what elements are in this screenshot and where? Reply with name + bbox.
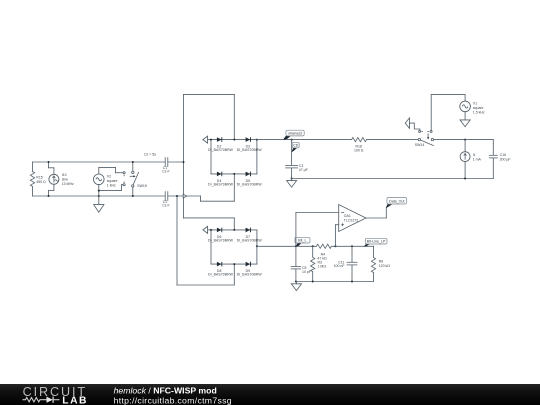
wire: C2 node down branch [177,196,234,285]
svg-text:450 Ω: 450 Ω [36,180,46,184]
svg-text:DI_BAS70BRW: DI_BAS70BRW [208,239,234,243]
net flag CD [291,140,299,166]
junction: bridge left top corner [210,139,212,141]
wire: bridge left vertical [210,140,212,174]
capacitor C2 [165,191,200,201]
svg-text:DI_BAS70BRW: DI_BAS70BRW [208,148,234,152]
flag (left of D6) [203,226,211,233]
svg-text:http://circuitlab.com/ctm7ssg: http://circuitlab.com/ctm7ssg [114,395,232,405]
svg-text:1 MΩ: 1 MΩ [318,265,327,269]
diode D5 [246,172,251,177]
wire: op-amp output [366,207,386,218]
diode D8 [217,262,222,267]
wire: op-amp inverting input [296,213,339,247]
svg-text:47 µF: 47 µF [299,168,308,172]
switch SW14 [418,130,434,145]
svg-text:DI_BAS70BRW: DI_BAS70BRW [237,148,263,152]
wire: op-amp non-inverting input [335,225,338,247]
junction: C11 bottom [351,281,353,283]
wire: bottom rail left block [33,195,166,197]
label C2 value [162,200,169,208]
junction: bridge bottom center [233,263,235,265]
svg-text:LAB: LAB [62,395,88,405]
junction: Bit_L node [295,245,297,247]
CircuitLab logo [23,385,88,405]
junction: I1 top node [464,139,466,141]
ground (below V2) [94,196,104,212]
voltage source V2 [94,167,123,196]
net flag Bit_L [295,237,310,246]
svg-text:I10: I10 [62,173,67,177]
junction: V2 ground rail [98,195,100,197]
svg-text:Bit_L: Bit_L [298,239,306,243]
current source I1 [460,140,470,179]
label R6 value [379,259,391,268]
diode D9 [246,262,251,267]
junction: C1 node [183,161,185,163]
label C1 value [162,166,169,174]
label C16 value [500,153,511,162]
wire: riser to lower bridge top [184,218,235,230]
label C5 value [302,266,311,274]
svg-text:DI_BAS70BRW: DI_BAS70BRW [237,239,263,243]
wire: bridge bottom row [211,263,257,265]
junction: bridge top center [233,139,235,141]
svg-text:CD: CD [293,144,299,148]
diode D2 [217,137,222,142]
voltage source V1 [431,95,470,131]
junction: V2 bottom branch [98,190,100,192]
resistor R18 [352,138,419,142]
wire: bridge bottom row [211,173,257,175]
svg-text:100 nF: 100 nF [334,264,345,268]
resistor R3 [311,246,315,281]
junction: I10 bottom [48,195,50,197]
resistor R15 [30,162,34,196]
svg-text:1 kHz: 1 kHz [107,184,116,188]
flag (arrow on C2 wire) [183,194,186,198]
label I10 value [62,173,74,186]
label R15 value [36,176,46,185]
svg-text:DI_BAS70BRW: DI_BAS70BRW [208,273,234,277]
junction: SW15 top [132,161,134,163]
wire: Bit_L rail [257,245,317,247]
svg-text:Cs F: Cs F [162,170,169,174]
ground (vharvest return) [287,179,297,188]
wire: top rail left block [33,161,166,163]
capacitor C11 [347,246,358,281]
label V1 value [473,101,485,114]
flag (SW14 control) [405,118,420,130]
junction: bridge top center [233,229,235,231]
flag (left of D2) [203,136,211,143]
junction: C11 top [351,245,353,247]
capacitor C1 [165,157,183,167]
junction: I1 bottom node [464,178,466,180]
ground (below V1) [460,120,470,127]
svg-text:sine: sine [62,178,68,182]
junction: bridge bottom center [233,173,235,175]
junction: top bridge right output [256,139,258,141]
diode D6 [217,228,222,233]
wire: C1 node vertical riser [183,94,185,217]
ground (op-amp block) [291,282,301,291]
junction: C5 bottom [295,281,297,283]
wire: SW14 to output node [434,139,494,141]
svg-text:OA1: OA1 [344,214,351,218]
svg-text:100 Ω: 100 Ω [354,148,364,152]
junction: op-amp + input tap [334,245,336,247]
svg-text:10 pF: 10 pF [302,270,311,274]
net flag vharvest [283,130,304,140]
svg-text:Cs F: Cs F [162,204,169,208]
svg-text:1.5 kHz: 1.5 kHz [473,110,485,114]
svg-text:DI_BAS70BRW: DI_BAS70BRW [208,183,234,187]
junction: C2 node [176,195,178,197]
label I1 value [473,153,482,162]
net flag Data_Out [386,198,407,209]
diode D3 [246,137,251,142]
svg-text:C16: C16 [500,153,506,157]
junction: R3 top [312,245,314,247]
svg-text:13 MHz: 13 MHz [62,182,74,186]
label OA1 value [344,214,358,222]
wire: bridge right vertical [256,230,258,264]
svg-text:Bit-Line_LP: Bit-Line_LP [367,240,386,244]
wire: bridge left vertical [210,230,212,264]
junction: lower bridge right mid tap [256,245,258,247]
capacitor C16 [489,140,498,179]
diode D4 [217,172,222,177]
svg-text:DI_BAS70BRW: DI_BAS70BRW [237,273,263,277]
junction: C3 branch from vharvest rail [291,139,293,141]
junction: R3 bottom [312,281,314,283]
wire: bridge right vertical [256,140,258,174]
svg-text:I1: I1 [473,153,476,157]
capacitor C5 [291,246,301,281]
capacitor C3 [285,165,298,178]
junction: ground node under C3 [291,178,293,180]
svg-text:SW14: SW14 [415,143,425,147]
junction: SW15 bottom [132,195,134,197]
label R3 value [318,261,327,269]
svg-text:V1: V1 [473,101,477,105]
svg-text:200 µF: 200 µF [500,158,511,162]
bottom bar [0,384,540,405]
label C11 value [334,260,345,268]
wire: right bottom rail [292,178,494,180]
svg-text:DI_BAS70BRW: DI_BAS70BRW [237,183,263,187]
svg-text:V2: V2 [107,175,111,179]
wire: top loop from C1 to top bridge input [184,94,235,139]
svg-text:square: square [107,179,118,183]
wire: bridge top row [211,139,257,141]
label C3 value [299,164,308,172]
wire: C2 jog to top bridge bottom [201,174,235,201]
attribution text [114,385,232,405]
svg-text:120 kΩ: 120 kΩ [379,264,391,268]
op-amp OA1 [339,205,366,232]
svg-text:TLC2272: TLC2272 [344,219,358,223]
wire: vharvest rail [257,139,352,141]
net flag Bit-Line_LP [364,238,387,246]
resistor R6 [371,246,375,281]
svg-text:SW15: SW15 [137,184,147,188]
svg-text:Data_Out: Data_Out [389,199,404,203]
label V2 value [107,175,118,188]
switch SW15 [123,162,139,196]
label R18 value [354,144,364,152]
resistor R4 [316,244,373,248]
label R4 value [317,252,327,260]
svg-text:R15: R15 [36,176,42,180]
wire: op-amp ground rail [296,281,374,283]
svg-text:R6: R6 [379,259,384,263]
svg-text:square: square [473,106,484,110]
svg-text:hemlock / NFC-WISP mod: hemlock / NFC-WISP mod [114,385,217,395]
wire: bridge top row [211,229,257,231]
svg-text:vharvest: vharvest [288,132,302,136]
svg-text:1 mA: 1 mA [473,158,482,162]
diode D7 [246,228,251,233]
junction: I10 top [48,161,50,163]
current source I10 [49,162,59,196]
svg-text:Cs = 5u: Cs = 5u [144,153,156,157]
junction: bridge left top corner [210,229,212,231]
